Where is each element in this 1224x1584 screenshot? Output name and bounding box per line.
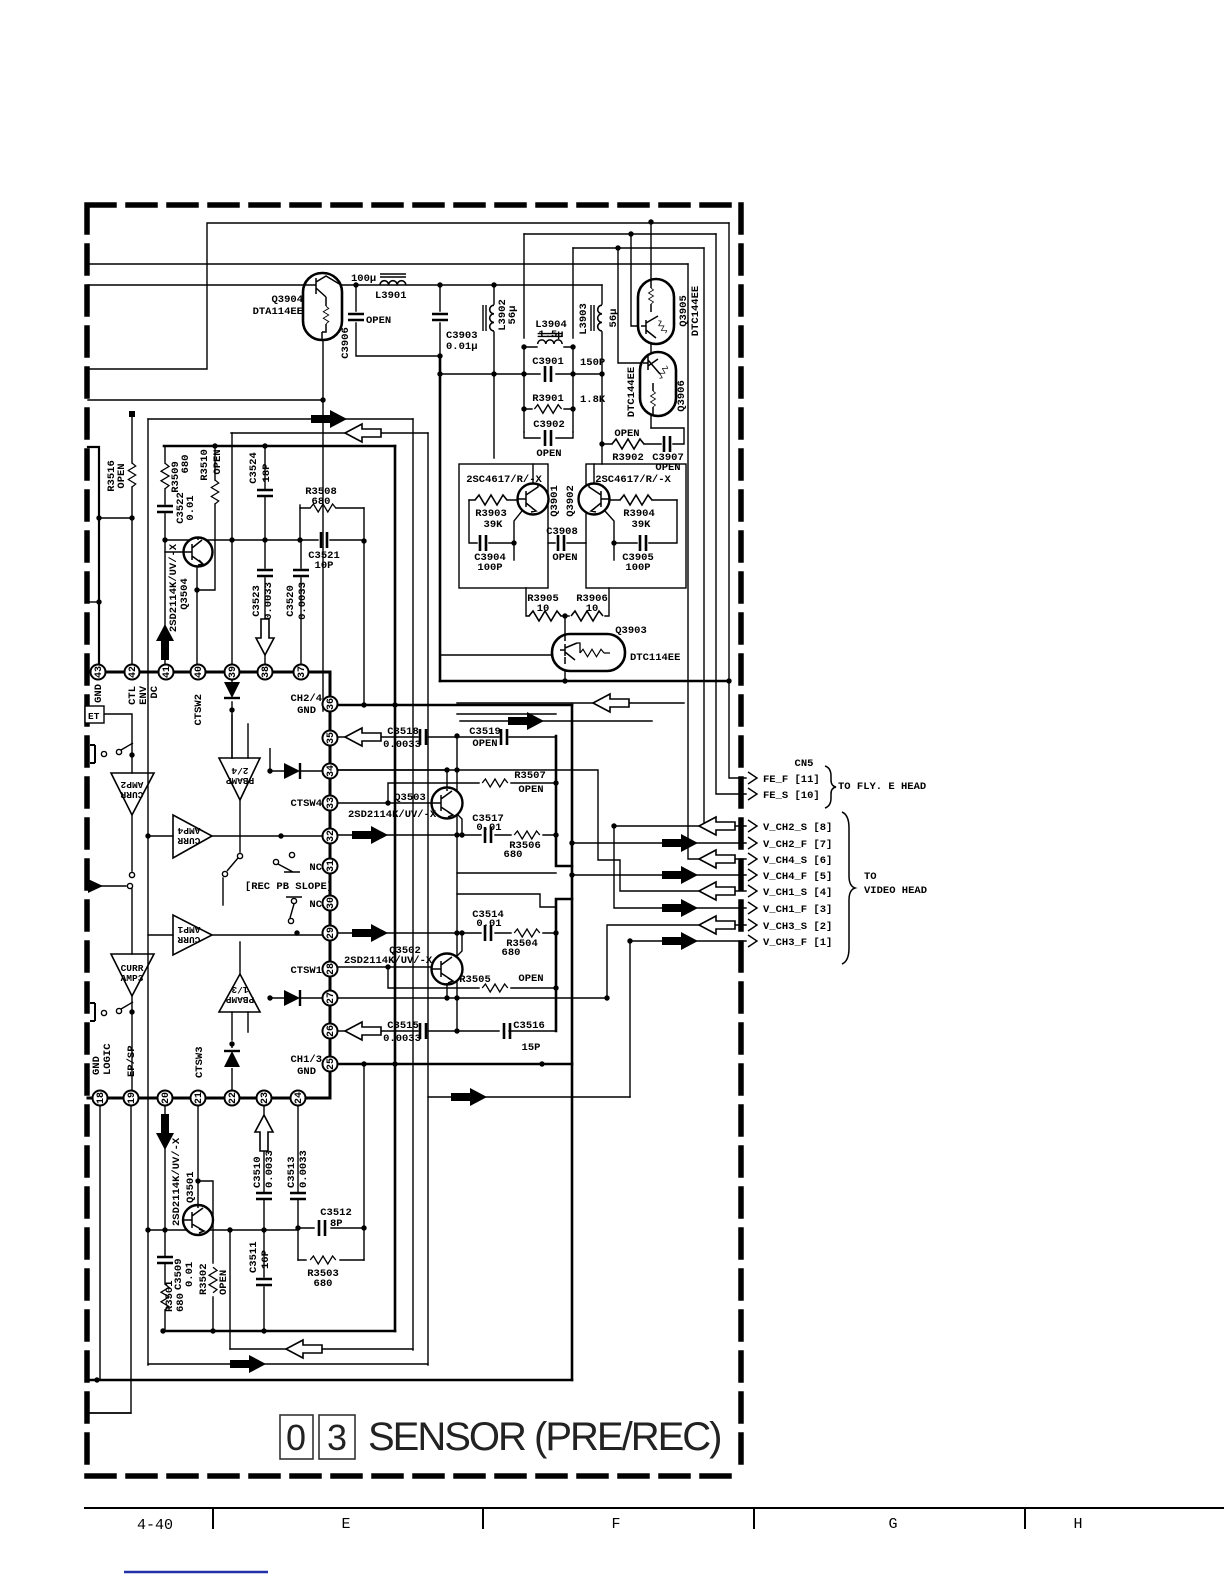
arrow open left y703 xyxy=(593,694,629,712)
svg-text:56µ: 56µ xyxy=(507,306,519,325)
wire pin34 row xyxy=(338,769,447,771)
wire L3902 branch xyxy=(493,285,495,458)
svg-text:OPEN: OPEN xyxy=(218,1270,230,1295)
vertical x395 thick xyxy=(394,446,397,1331)
wire Q3905 base x631 xyxy=(631,234,641,326)
svg-text:FE_S [10]: FE_S [10] xyxy=(763,790,820,802)
svg-text:33: 33 xyxy=(326,797,337,809)
svg-text:100P: 100P xyxy=(625,562,650,574)
label PBAMP 1/3 xyxy=(225,984,254,1005)
inductor L3904 xyxy=(538,334,563,344)
svg-text:R3505: R3505 xyxy=(459,974,491,986)
wire R3507 jog xyxy=(388,783,556,803)
wire C3903 branch x440 xyxy=(439,285,441,356)
svg-text:TO: TO xyxy=(864,871,877,883)
svg-text:LOGIC: LOGIC xyxy=(102,1043,114,1075)
wire channel box lower xyxy=(457,894,556,907)
svg-text:OPEN: OPEN xyxy=(655,462,680,474)
transistor Q3503 xyxy=(432,788,463,819)
wire bus drop x688 VCH4S xyxy=(688,264,746,859)
svg-text:20: 20 xyxy=(161,1092,172,1104)
svg-text:1.8K: 1.8K xyxy=(580,394,606,406)
svg-text:C3906: C3906 xyxy=(340,327,352,359)
svg-text:NC: NC xyxy=(309,862,322,874)
svg-text:39K: 39K xyxy=(632,519,652,531)
inductor L3903 xyxy=(591,305,602,331)
wire bus y264 xyxy=(88,263,688,265)
arrow open left pin35 xyxy=(345,728,381,746)
wire diode pin34 leads xyxy=(270,748,330,771)
wire x457 bus xyxy=(456,736,458,1031)
wire y446 thick top of R3509 group xyxy=(164,445,395,448)
svg-text:0.0033: 0.0033 xyxy=(383,1033,421,1045)
svg-text:0.0033: 0.0033 xyxy=(383,739,421,751)
wire pin19 down xyxy=(87,1105,131,1413)
svg-text:39K: 39K xyxy=(484,519,504,531)
svg-text:15P: 15P xyxy=(522,1042,541,1054)
vertical x323 Q3904 collector xyxy=(322,339,324,711)
footer tick 3 xyxy=(753,1508,755,1528)
switch SW5 rec pb slope xyxy=(273,859,278,864)
IC pin chain xyxy=(88,672,330,1098)
wire Q3905 top x651 xyxy=(650,222,652,280)
svg-text:37: 37 xyxy=(297,666,308,678)
svg-text:10: 10 xyxy=(586,603,599,615)
label CURR AMP4 xyxy=(177,825,200,846)
svg-text:1.5µ: 1.5µ xyxy=(538,329,563,341)
svg-text:C3519: C3519 xyxy=(469,726,501,738)
capacitor C3906 xyxy=(348,314,364,320)
wire pin20 col xyxy=(164,1105,166,1230)
footer tick 2 xyxy=(482,1508,484,1528)
IC pins column xyxy=(323,697,338,1072)
svg-text:V_CH2_F [7]: V_CH2_F [7] xyxy=(763,839,832,851)
svg-text:C3902: C3902 xyxy=(533,419,565,431)
resistor R3508 leads xyxy=(300,507,364,509)
wire C3509 R3501 col xyxy=(164,1230,166,1331)
wire Q3503 emitter xyxy=(456,813,462,835)
transistor Q3905 DTC144EE oval xyxy=(638,279,674,344)
svg-text:L3901: L3901 xyxy=(375,290,407,302)
svg-text:680: 680 xyxy=(504,849,523,861)
capacitor C3521 leads xyxy=(300,539,364,541)
wire pin29 row C3514 R3504 xyxy=(338,932,556,934)
svg-text:EP/SP: EP/SP xyxy=(126,1045,138,1077)
junction dots xyxy=(96,515,101,520)
svg-text:V_CH4_F [5]: V_CH4_F [5] xyxy=(763,871,832,883)
wire thick y1331 xyxy=(163,1330,395,1333)
wire pin28 base xyxy=(338,966,432,968)
wire thick x440 xyxy=(439,356,442,681)
wire y1349 open arrow xyxy=(230,1348,413,1350)
svg-text:18: 18 xyxy=(96,1092,107,1104)
svg-text:23: 23 xyxy=(260,1092,271,1104)
arrow black VCH2F xyxy=(662,834,698,852)
wire y540 xyxy=(165,539,301,541)
arrow open left y1349 xyxy=(286,1340,322,1358)
wire left arrow y886 xyxy=(88,885,126,887)
svg-text:CN5: CN5 xyxy=(795,758,814,770)
wire sw to amp area xyxy=(222,878,224,905)
resistor R3508 xyxy=(310,504,336,512)
svg-text:C3511: C3511 xyxy=(248,1241,260,1273)
arrow open VCH4S xyxy=(699,850,735,868)
svg-text:8P: 8P xyxy=(330,1218,343,1230)
wire base Q3904 y285 xyxy=(88,284,304,286)
wire bus drop x716 FE_S xyxy=(716,234,746,794)
wire VCH3F x630 xyxy=(630,941,746,1097)
svg-text:Q3904: Q3904 xyxy=(271,294,303,306)
wire y721 black arrow xyxy=(460,720,652,722)
svg-text:VIDEO HEAD: VIDEO HEAD xyxy=(864,885,927,897)
wire R3904 row xyxy=(609,499,677,501)
wire C3511 col xyxy=(263,1230,265,1331)
resistor R3502 xyxy=(209,1267,217,1293)
svg-text:OPEN: OPEN xyxy=(116,463,128,488)
transistor Q3501 xyxy=(183,1205,213,1235)
diode D pin22 xyxy=(224,1051,240,1067)
arrow black y1097 xyxy=(451,1088,487,1106)
svg-text:V_CH1_F [3]: V_CH1_F [3] xyxy=(763,904,832,916)
svg-text:3: 3 xyxy=(327,1417,347,1458)
svg-text:42: 42 xyxy=(128,666,139,678)
svg-text:OPEN: OPEN xyxy=(212,449,224,474)
svg-text:Q3905: Q3905 xyxy=(678,295,690,327)
footer tick 4 xyxy=(1024,1508,1026,1528)
diode D pin39 xyxy=(224,682,240,698)
svg-text:C3516: C3516 xyxy=(513,1020,545,1032)
svg-text:C3513: C3513 xyxy=(286,1156,298,1188)
svg-text:V_CH3_F [1]: V_CH3_F [1] xyxy=(763,937,832,949)
svg-text:C3520: C3520 xyxy=(285,585,297,617)
svg-text:Q3903: Q3903 xyxy=(615,625,647,637)
svg-text:G: G xyxy=(888,1516,897,1533)
svg-text:0.01µ: 0.01µ xyxy=(446,341,478,353)
footer rule xyxy=(85,1507,1224,1509)
svg-text:2SD2114K/UV/-X: 2SD2114K/UV/-X xyxy=(344,955,433,967)
capacitor C3521 xyxy=(321,532,327,548)
capacitor C3510 xyxy=(256,1193,272,1199)
svg-text:28: 28 xyxy=(326,963,337,975)
brace video head xyxy=(842,812,855,964)
wire Q3902 emitter node xyxy=(605,511,614,560)
svg-text:2SD2114K/UV/-X: 2SD2114K/UV/-X xyxy=(348,809,437,821)
arrow black y419 xyxy=(311,410,347,428)
svg-text:R3507: R3507 xyxy=(514,770,546,782)
svg-text:OPEN: OPEN xyxy=(366,315,391,327)
wire pin25 gnd thick xyxy=(338,1063,572,1066)
diode D pin27 xyxy=(284,990,300,1006)
wire C3908 row xyxy=(548,542,586,544)
svg-text:680: 680 xyxy=(502,947,521,959)
svg-text:OPEN: OPEN xyxy=(518,784,543,796)
vertical x413 xyxy=(412,419,414,1350)
wire x364 lower xyxy=(363,1064,365,1260)
svg-text:34: 34 xyxy=(326,765,337,777)
svg-text:680: 680 xyxy=(312,496,331,508)
wire y1364 black arrow xyxy=(148,1363,428,1365)
op-amp CURR AMP3 xyxy=(111,954,154,996)
wire Q3903 left xyxy=(440,654,552,656)
capacitor C3517 xyxy=(485,827,491,843)
wire pin36 gnd thick xyxy=(338,704,572,707)
capacitor C3515 xyxy=(420,1023,426,1039)
op-amp CURR AMP2 xyxy=(111,773,154,815)
resistor R3902 xyxy=(612,439,644,449)
arrow black y1364 xyxy=(230,1355,266,1373)
box 2SC4617 left xyxy=(459,464,548,588)
op-amp CURR AMP4 xyxy=(173,815,212,858)
svg-text:Q3501: Q3501 xyxy=(185,1171,197,1203)
svg-text:OPEN: OPEN xyxy=(472,738,497,750)
connector chevrons CN5 xyxy=(748,772,757,784)
svg-text:H: H xyxy=(1073,1516,1082,1533)
svg-text:2SC4617/R/-X: 2SC4617/R/-X xyxy=(595,474,671,486)
wire Q3504 base xyxy=(165,551,184,553)
svg-text:25: 25 xyxy=(326,1058,337,1070)
svg-text:19: 19 xyxy=(127,1092,138,1104)
svg-text:2SC4617/R/-X: 2SC4617/R/-X xyxy=(466,474,542,486)
switch SW1 top left xyxy=(90,745,95,763)
svg-text:R3902: R3902 xyxy=(612,452,644,464)
wire L3904 left node x524 xyxy=(523,234,525,432)
wire pin37 x301 C3520 xyxy=(300,540,302,672)
svg-text:C3523: C3523 xyxy=(251,585,263,617)
arrow open VCH3S xyxy=(699,916,735,934)
arrow black pin29 xyxy=(352,924,388,942)
svg-text:[REC PB SLOPE]: [REC PB SLOPE] xyxy=(245,881,333,893)
wire Q3503 collector xyxy=(446,770,448,789)
wire bracket upper thick xyxy=(556,736,572,866)
op-amp CURR AMP1 xyxy=(173,915,212,955)
svg-text:CH2/4: CH2/4 xyxy=(290,693,322,705)
wire curr amp4 out to pin32 xyxy=(212,835,330,837)
wire pin33 base xyxy=(338,802,432,804)
transistor Q3504 xyxy=(184,538,213,567)
svg-text:24: 24 xyxy=(294,1092,305,1104)
svg-text:150P: 150P xyxy=(580,357,605,369)
wire R3902 row xyxy=(602,428,684,444)
wire R3510 branch xyxy=(197,446,215,590)
wire x364 down xyxy=(363,508,365,705)
svg-text:1/3: 1/3 xyxy=(231,984,248,995)
wire R3508 left node xyxy=(299,505,301,540)
svg-text:22: 22 xyxy=(228,1092,239,1104)
svg-text:DC: DC xyxy=(149,685,161,698)
svg-text:0.01: 0.01 xyxy=(476,822,501,834)
wire Q3903 bottom xyxy=(564,671,566,681)
IC pins row2 xyxy=(93,1091,306,1106)
arrow black down pin20 xyxy=(156,1114,174,1150)
svg-text:DTA114EE: DTA114EE xyxy=(253,306,303,318)
wire y1230 base bus xyxy=(148,1229,298,1231)
svg-text:R3901: R3901 xyxy=(532,393,564,405)
svg-text:0.0033: 0.0033 xyxy=(297,582,309,620)
capacitor C3519 xyxy=(501,729,507,745)
capacitor C3901 xyxy=(545,366,551,382)
svg-text:FE_F [11]: FE_F [11] xyxy=(763,774,820,786)
capacitor C3512 xyxy=(319,1220,325,1236)
wire pin26 row C3515 C3516 xyxy=(338,1030,556,1032)
svg-text:ET: ET xyxy=(88,711,100,722)
svg-text:CTSW1: CTSW1 xyxy=(290,965,322,977)
wire pin21 col to Q3501 xyxy=(197,1105,199,1205)
svg-text:39: 39 xyxy=(228,666,239,678)
wire thick y681 xyxy=(440,680,729,683)
resistor R3507 xyxy=(482,779,508,787)
wire emitter Q3904 to L3903 xyxy=(341,284,602,286)
op-amp PBAMP 2/4 xyxy=(219,758,260,800)
wire channel box upper xyxy=(457,714,556,873)
wire pin32 row C3517 R3506 xyxy=(338,834,556,836)
capacitor C3524 xyxy=(257,490,273,496)
wire C3904 row xyxy=(469,500,514,543)
wire y400 xyxy=(88,399,323,401)
arrow open down pin38 xyxy=(256,619,274,655)
svg-text:21: 21 xyxy=(194,1092,205,1104)
svg-text:C3515: C3515 xyxy=(387,1020,419,1032)
svg-text:GND: GND xyxy=(297,705,316,717)
wire diode pin27 leads xyxy=(270,997,330,999)
svg-text:680: 680 xyxy=(180,455,192,474)
transistor Q3502 xyxy=(432,954,463,986)
wire y419 with arrow xyxy=(148,418,413,420)
wire pin35 row C3518 C3519 xyxy=(338,736,556,738)
blue mark xyxy=(124,1571,268,1573)
svg-text:41: 41 xyxy=(162,666,173,678)
resistor R3503 row xyxy=(298,1259,364,1261)
wire pin27 row xyxy=(338,925,746,998)
svg-text:R3510: R3510 xyxy=(199,449,211,481)
wire Q3906 bottom xyxy=(650,415,652,428)
svg-text:32: 32 xyxy=(326,830,337,842)
wire pbamp13 out xyxy=(239,942,241,974)
capacitor C3905 xyxy=(640,535,646,551)
svg-text:Q3906: Q3906 xyxy=(676,380,688,412)
label PBAMP 2/4 xyxy=(225,765,254,786)
resistor R3516 lead xyxy=(131,414,133,672)
wire x99-x132 link y518 xyxy=(99,517,132,519)
resistor R3503 xyxy=(310,1256,336,1264)
svg-text:40: 40 xyxy=(194,666,205,678)
capacitor C3908 xyxy=(558,535,564,551)
wire Q3501 collector jog xyxy=(198,1181,213,1331)
arrow open y433 xyxy=(345,424,381,442)
svg-text:0.0033: 0.0033 xyxy=(298,1150,310,1188)
switch SW6 xyxy=(291,898,296,903)
svg-text:29: 29 xyxy=(326,927,337,939)
svg-text:DTC144EE: DTC144EE xyxy=(626,367,638,417)
switch SW4 pbamp out xyxy=(237,853,242,858)
wire Q3901 emitter node xyxy=(514,511,522,560)
svg-text:0.0033: 0.0033 xyxy=(264,1150,276,1188)
wire VCH2F from x572 xyxy=(572,842,746,844)
resistor R3901 xyxy=(534,405,561,414)
capacitor C3907 xyxy=(664,436,670,452)
wire y433 with open arrow xyxy=(231,432,428,434)
svg-text:TO FLY. E HEAD: TO FLY. E HEAD xyxy=(838,781,926,793)
wire C3902 row xyxy=(524,432,573,438)
transistor Q3902 2SC4617 xyxy=(579,484,610,515)
capacitor C3511 xyxy=(256,1279,272,1285)
transistor Q3906 DTC144EE oval xyxy=(640,352,676,416)
svg-text:0.01: 0.01 xyxy=(476,918,501,930)
wire x230 down xyxy=(229,1230,231,1349)
capacitor C3518 xyxy=(420,729,426,745)
svg-text:NC: NC xyxy=(309,899,322,911)
wire thick bottom y1380 xyxy=(87,1379,572,1382)
svg-text:AMP1: AMP1 xyxy=(177,924,200,935)
wire thick x572 xyxy=(571,705,574,1380)
wire Q3905 Q3906 link xyxy=(650,343,652,353)
capacitor C3516 xyxy=(504,1023,510,1039)
resistor R3510 xyxy=(211,480,219,504)
node x99 feed xyxy=(88,447,99,672)
svg-text:OPEN: OPEN xyxy=(518,973,543,985)
arrow open up pin23 xyxy=(255,1115,273,1151)
svg-text:L3903: L3903 xyxy=(578,303,590,335)
svg-text:C3524: C3524 xyxy=(248,452,260,484)
svg-text:AMP2: AMP2 xyxy=(120,779,143,790)
capacitor C3523 xyxy=(257,570,273,576)
vertical x428 xyxy=(427,433,429,1365)
svg-text:V_CH2_S [8]: V_CH2_S [8] xyxy=(763,822,832,834)
wire outer x735 xyxy=(87,1412,131,1414)
resistor R3906 xyxy=(571,611,603,621)
wire pin24 col C3513 xyxy=(297,1105,299,1260)
svg-text:C3901: C3901 xyxy=(532,356,564,368)
wire curr amp1 out to pin29 xyxy=(212,934,330,936)
wire C3906 branch xyxy=(356,285,440,356)
wire pin41 branch R3509 xyxy=(164,446,166,672)
switch SW2 lower left xyxy=(90,1003,95,1021)
footer tick 1 xyxy=(212,1508,214,1528)
svg-text:C3510: C3510 xyxy=(252,1156,264,1188)
wire C3905 row xyxy=(614,500,677,543)
svg-text:Q3901: Q3901 xyxy=(549,485,561,517)
svg-text:2SD2114K/UV/-X: 2SD2114K/UV/-X xyxy=(171,1137,183,1226)
wire L3904 right node x573 xyxy=(572,248,574,432)
svg-text:43: 43 xyxy=(94,666,105,678)
svg-text:31: 31 xyxy=(326,860,337,872)
wire x132 amps chain xyxy=(131,756,133,1098)
capacitor C3514 xyxy=(485,925,491,941)
svg-text:SENSOR (PRE/REC): SENSOR (PRE/REC) xyxy=(368,1415,721,1459)
arrow black VCH1F xyxy=(662,899,698,917)
svg-text:0.01: 0.01 xyxy=(184,1262,196,1287)
svg-text:2/4: 2/4 xyxy=(231,765,248,776)
transistor Q3901 2SC4617 xyxy=(518,484,549,515)
svg-text:DTC144EE: DTC144EE xyxy=(690,286,702,336)
wire pbamp24 out xyxy=(239,800,241,852)
svg-text:V_CH3_S [2]: V_CH3_S [2] xyxy=(763,921,832,933)
wire Q3502 emitter xyxy=(456,933,462,957)
capacitor C3513 xyxy=(290,1193,306,1199)
resistor R3501 xyxy=(161,1284,169,1310)
diode D pin34 xyxy=(284,763,300,779)
box ET xyxy=(85,706,104,723)
box 2SC4617 right xyxy=(586,464,686,588)
resistor R3903 xyxy=(475,495,507,505)
svg-text:C3908: C3908 xyxy=(546,526,578,538)
wire L3903 branch x602 xyxy=(601,285,603,464)
svg-text:CTSW4: CTSW4 xyxy=(290,798,322,810)
svg-text:C3518: C3518 xyxy=(387,726,419,738)
svg-text:GND: GND xyxy=(93,684,105,703)
svg-text:18P: 18P xyxy=(261,464,273,483)
svg-text:CTSW2: CTSW2 xyxy=(193,694,205,726)
svg-text:680: 680 xyxy=(314,1278,333,1290)
